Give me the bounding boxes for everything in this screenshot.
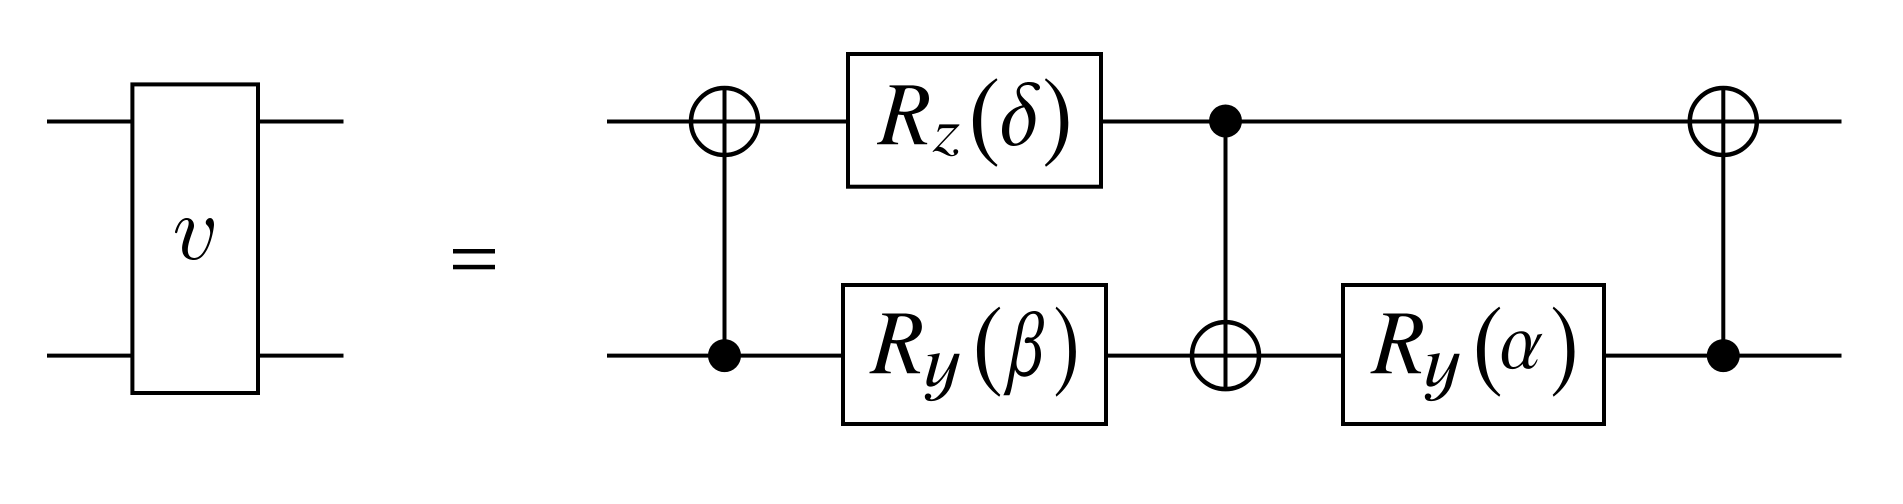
label Rz subscript z xyxy=(933,124,960,156)
label Rz R xyxy=(877,85,929,144)
CNOT 3 control dot bottom xyxy=(1707,339,1740,372)
label Rz left paren xyxy=(973,78,998,167)
wire q1 input left circuit bottom xyxy=(47,354,133,358)
wire q1 output left circuit bottom xyxy=(258,354,344,358)
wire q0 output left circuit top xyxy=(258,120,344,124)
label Rya alpha xyxy=(1502,331,1543,369)
wire q0 right circuit top xyxy=(607,120,1842,124)
label Rya right paren xyxy=(1553,307,1575,397)
label Ryb left paren xyxy=(977,307,1000,397)
label Ryb beta xyxy=(1003,311,1044,395)
CNOT 1 target top xyxy=(691,88,758,155)
equals sign xyxy=(453,249,495,254)
label Ryb right paren xyxy=(1056,307,1076,397)
CNOT 2 vertical connector xyxy=(1224,122,1228,390)
CNOT 1 control dot bottom xyxy=(708,339,741,372)
CNOT 2 target bottom xyxy=(1192,322,1259,389)
CNOT 3 vertical connector xyxy=(1721,90,1725,356)
label Rya left paren xyxy=(1477,307,1500,397)
CNOT 3 target top xyxy=(1690,88,1757,155)
label v xyxy=(175,218,214,260)
gate box Ry(beta) xyxy=(843,285,1106,424)
wire q1 right circuit bottom xyxy=(607,354,1842,358)
CNOT 1 vertical connector xyxy=(723,90,727,356)
label Rz right paren xyxy=(1045,78,1068,167)
wire q0 input left circuit top xyxy=(47,120,133,124)
label Ryb R xyxy=(870,313,922,373)
label Rz delta xyxy=(1002,82,1040,146)
gate box Ry(alpha) xyxy=(1343,285,1604,424)
label Rya subscript y xyxy=(1425,353,1460,401)
label Ryb subscript y xyxy=(925,353,960,401)
CNOT 2 control dot top xyxy=(1209,105,1242,138)
gate box V xyxy=(132,84,258,393)
label Rya R xyxy=(1371,313,1423,373)
gate box Rz(delta) xyxy=(848,54,1101,187)
